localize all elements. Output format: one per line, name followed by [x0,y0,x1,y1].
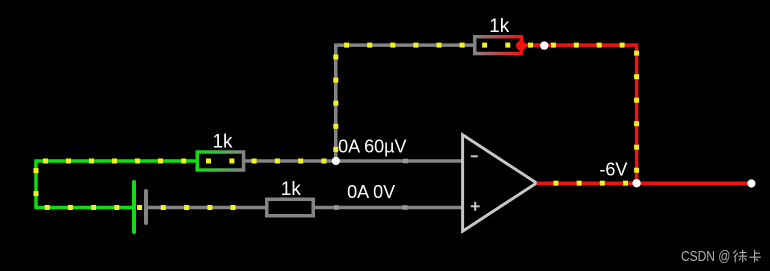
wire: R1 to node A [244,159,336,164]
resistor R3 1k (non-inverting input series) [267,199,314,216]
svg-text:0A 0V: 0A 0V [347,182,395,202]
node: output terminal post (white) [747,179,755,187]
svg-text:1k: 1k [281,179,302,200]
watermark CSDN @laika [681,248,761,265]
wire: node A to op-amp - input [336,159,464,164]
node A (inverting input junction, white) [332,157,340,165]
svg-text:CSDN @: CSDN @ [681,248,731,265]
svg-text:1k: 1k [489,16,510,37]
wire: R3 to op-amp + input [315,205,464,210]
svg-text:1k: 1k [212,131,233,152]
resistor R2 1k (feedback) [475,37,522,54]
node: output junction (white) [632,179,640,187]
battery V1 (6V source) [134,182,146,232]
wire: junction to output terminal (red) [637,181,751,185]
wire: feedback up and across (gray) [333,43,474,161]
wire: battery - to resistor R3 [148,205,266,210]
R2 output post (red dot) [516,41,526,51]
resistor R1 1k (input series) [197,152,243,170]
wire: source loop green (R1 left post, down, across to battery +) [34,159,196,211]
op-amp U1 [463,135,537,231]
svg-text:-6V: -6V [599,160,627,180]
wire: op-amp output to junction (red) [537,181,637,186]
svg-text:0A 60µV: 0A 60µV [338,137,406,157]
node B (feedback/output wire junction, white) [540,41,548,49]
wire: R2 to corner down to output node (red) [523,43,639,184]
